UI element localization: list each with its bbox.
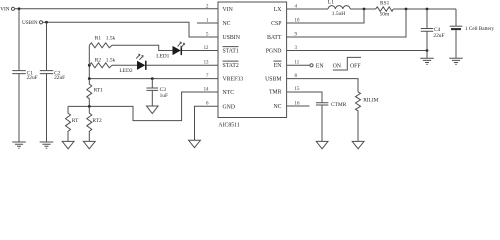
wire NC16 stub <box>287 105 310 107</box>
svg-text:STAT2: STAT2 <box>223 63 239 69</box>
switch ON/OFF <box>333 57 361 70</box>
ground (C3 arrow) <box>147 106 159 114</box>
ground (C2) <box>40 142 54 148</box>
wire EN stub <box>287 64 310 66</box>
svg-text:22uF: 22uF <box>27 75 38 81</box>
ground (RT2 arrow) <box>83 141 95 148</box>
wire LED1 to pin 12 <box>182 50 218 52</box>
LED LED1 <box>156 42 184 60</box>
svg-text:1uF: 1uF <box>160 93 168 99</box>
node L1 out <box>363 8 366 11</box>
svg-text:PGND: PGND <box>266 49 282 55</box>
svg-text:USBIN: USBIN <box>22 20 38 26</box>
ground (CTMR arrow) <box>316 141 328 148</box>
wire BATT riser <box>287 9 406 37</box>
wire L1 to RS1 <box>350 8 375 10</box>
svg-text:LX: LX <box>274 7 283 13</box>
resistor R1 <box>89 35 115 47</box>
wire USBM to RILIM <box>287 79 358 92</box>
op-amp U1 AIC8511 IC body <box>218 2 287 118</box>
resistor R2 <box>89 57 115 67</box>
svg-text:BATT: BATT <box>267 35 282 41</box>
wire R2 to LED2 <box>112 64 137 66</box>
wire RS1 to battery <box>393 8 456 10</box>
svg-text:EN: EN <box>316 63 325 69</box>
svg-text:11: 11 <box>295 60 300 65</box>
svg-text:1.5uH: 1.5uH <box>332 11 345 17</box>
wire PGND <box>287 50 427 52</box>
node C4 tee <box>426 8 429 11</box>
svg-text:CSP: CSP <box>271 21 281 27</box>
capacitor C2 <box>40 70 65 142</box>
svg-text:NC: NC <box>223 21 231 27</box>
svg-text:VREF33: VREF33 <box>223 77 244 83</box>
svg-text:1.5k: 1.5k <box>106 57 116 63</box>
resistor RT2 <box>87 106 102 141</box>
svg-text:USBIN: USBIN <box>223 35 241 41</box>
wire TMR to CTMR <box>287 92 322 102</box>
terminal EN circle <box>310 64 313 67</box>
svg-text:NTC: NTC <box>223 90 235 96</box>
svg-text:VIN: VIN <box>0 7 9 13</box>
svg-text:LED1: LED1 <box>156 54 169 60</box>
svg-text:RT: RT <box>72 118 79 124</box>
terminal VIN <box>0 7 14 13</box>
svg-text:RILIM: RILIM <box>363 97 378 103</box>
capacitor C1 <box>12 70 37 142</box>
svg-text:R2: R2 <box>95 57 102 63</box>
svg-text:22uF: 22uF <box>54 75 65 81</box>
wire R1 to LED1 <box>112 45 173 50</box>
wire VREF33 to pin 7 <box>89 78 218 80</box>
ground (RILIM arrow) <box>352 141 364 148</box>
node C3 tee <box>151 77 154 80</box>
capacitor C3 <box>147 79 168 106</box>
node R2 tee <box>88 64 91 67</box>
svg-text:RS1: RS1 <box>380 1 390 7</box>
svg-text:RT1: RT1 <box>94 88 104 94</box>
svg-text:EN: EN <box>274 63 283 69</box>
svg-text:L1: L1 <box>328 0 334 6</box>
IC pin numbers right <box>295 4 300 106</box>
wire rail VREF33 vertical <box>88 45 90 78</box>
node RT2 tee <box>88 105 91 108</box>
node BATT tee <box>405 8 408 11</box>
svg-text:1.5k: 1.5k <box>106 35 116 41</box>
wire pin 1 NC stub <box>197 22 218 24</box>
wire VIN drop to C1 <box>18 9 20 71</box>
wire USBIN to pin 5 <box>43 22 218 37</box>
svg-text:LED2: LED2 <box>119 68 132 74</box>
wire LX to L1 <box>287 8 328 10</box>
svg-text:14: 14 <box>204 87 209 92</box>
wire CSP riser <box>287 9 364 23</box>
inductor L1 <box>328 0 350 17</box>
ground (C1) <box>12 142 26 148</box>
svg-text:AIC8511: AIC8511 <box>218 122 239 128</box>
svg-text:12: 12 <box>204 46 209 51</box>
LED LED2 <box>119 54 145 74</box>
svg-text:TMR: TMR <box>269 90 282 96</box>
svg-text:USBM: USBM <box>265 77 281 83</box>
svg-text:15: 15 <box>295 87 300 92</box>
svg-text:RT2: RT2 <box>92 118 102 124</box>
svg-text:GND: GND <box>223 104 236 110</box>
node PGND/C4 <box>426 49 429 52</box>
wire USBIN drop to C2 <box>46 22 48 70</box>
wire VIN to pin 2 <box>15 8 218 10</box>
node VREF33 tee <box>88 77 91 80</box>
wire LED2 to pin 13 <box>147 64 219 66</box>
svg-text:50m: 50m <box>380 12 390 18</box>
svg-text:NC: NC <box>273 104 281 110</box>
ground (battery) <box>449 58 463 64</box>
ground (IC GND arrow) <box>189 140 201 147</box>
wire NTC node path <box>68 92 218 121</box>
node USBIN junction <box>45 21 48 24</box>
node VIN junction <box>18 7 21 10</box>
svg-text:VIN: VIN <box>223 7 234 13</box>
resistor RS1 <box>376 1 394 18</box>
svg-text:ON: ON <box>333 63 342 69</box>
svg-text:STAT1: STAT1 <box>223 49 239 55</box>
battery BT1 <box>450 9 495 58</box>
resistor RILIM <box>356 92 379 142</box>
resistor RT1 <box>87 79 103 107</box>
resistor RT <box>66 106 80 141</box>
IC right pin labels <box>265 7 282 110</box>
IC pin numbers left <box>204 4 209 106</box>
ground (C4) <box>420 58 434 64</box>
svg-text:22uF: 22uF <box>433 33 444 39</box>
svg-text:OFF: OFF <box>350 63 361 69</box>
terminal USBIN <box>22 20 43 26</box>
svg-text:13: 13 <box>204 60 209 65</box>
svg-text:R1: R1 <box>95 35 102 41</box>
capacitor CTMR <box>316 102 347 141</box>
IC left pin labels <box>223 7 244 110</box>
svg-text:CTMR: CTMR <box>331 102 347 108</box>
ground (RT arrow) <box>62 141 74 148</box>
wire pin 6 GND <box>195 106 219 140</box>
capacitor C4 <box>421 9 445 58</box>
svg-text:1 Cell Battery: 1 Cell Battery <box>465 26 495 32</box>
